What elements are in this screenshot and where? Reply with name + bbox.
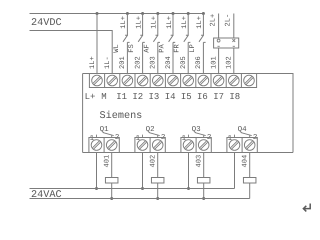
wire input I5 lower (188, 42, 190, 73)
relay Q2 contact (143, 133, 160, 138)
svg-text:205: 205 (180, 56, 188, 69)
node L+ rail junction 3 (141, 12, 144, 15)
node Q2-2 on AC rail (156, 197, 159, 200)
svg-text:PA: PA (159, 44, 167, 53)
terminal screw Q1-2 (106, 140, 117, 151)
svg-text:201: 201 (119, 56, 127, 69)
svg-text:I7: I7 (213, 92, 224, 102)
terminal block Q4 (227, 138, 257, 153)
wire 2L+ upper (218, 14, 220, 39)
switch FR blade (184, 35, 188, 41)
terminal screw 6 (168, 75, 179, 86)
wire Q3-2 to load (203, 153, 205, 178)
return mark (303, 204, 310, 212)
svg-text:I5: I5 (181, 92, 192, 102)
node L+ rail junction 1 (96, 12, 99, 15)
wire Q3-1 down (188, 153, 190, 189)
terminal screw Q2-1 (137, 140, 148, 151)
node Q3-1 on AC rail (187, 187, 190, 190)
wire input I6 upper (201, 14, 203, 36)
load 4 rect (243, 178, 256, 184)
sensor terminal circle (217, 39, 220, 42)
terminal screw 1 (92, 75, 103, 86)
svg-text:101: 101 (210, 56, 218, 69)
sensor terminal mark (232, 39, 235, 42)
wire input I4 lower (173, 42, 175, 73)
svg-text:M: M (101, 92, 106, 102)
labels L+ M I1-I8 (85, 92, 241, 102)
wire 2L+ lower to I7 (218, 48, 220, 74)
svg-text:404: 404 (242, 155, 250, 168)
terminal screw Q3-2 (198, 140, 209, 151)
terminal screw Q3-1 (183, 140, 194, 151)
wire input I3 lower (158, 42, 160, 73)
svg-text:204: 204 (165, 56, 173, 69)
terminal screw 3 (122, 75, 133, 86)
load 2 rect (151, 178, 164, 184)
load 1 rect (105, 178, 118, 184)
wire Q2-1 down (142, 153, 144, 189)
svg-text:24VDC: 24VDC (31, 18, 62, 29)
svg-text:1L-: 1L- (104, 56, 112, 69)
terminal block Q3 (181, 138, 211, 153)
wire input I5 upper (186, 14, 188, 36)
wire 24VDC M rail (30, 31, 113, 74)
wire input I6 lower (203, 42, 205, 73)
svg-text:WL: WL (113, 44, 121, 53)
relay Q3 contact (189, 133, 206, 138)
svg-text:403: 403 (196, 155, 204, 168)
wire load 3 down (203, 183, 205, 199)
load 3 rect (197, 178, 210, 184)
wire Q1-1 down (96, 153, 98, 189)
svg-text:401: 401 (104, 155, 112, 168)
svg-text:I6: I6 (197, 92, 208, 102)
sensor tick right (233, 45, 235, 47)
wire 24VAC rail 2 (30, 198, 250, 200)
svg-text:24VAC: 24VAC (31, 190, 62, 201)
terminal screw Q2-2 (152, 140, 163, 151)
svg-text:I4: I4 (165, 92, 176, 102)
wire Q1-2 to load (111, 153, 113, 178)
relay Q4 contact (235, 133, 252, 138)
terminal screw Q4-1 (229, 140, 240, 151)
svg-text:I1: I1 (116, 92, 127, 102)
svg-text:1L+: 1L+ (166, 16, 174, 29)
wire load 4 down (249, 183, 251, 199)
wire L+ to terminal (96, 14, 98, 74)
svg-text:L+: L+ (85, 92, 96, 102)
switch WL blade (123, 35, 127, 41)
svg-text:206: 206 (195, 56, 203, 69)
node L+ rail junction 7 (202, 12, 205, 15)
node L+ rail junction 2 (126, 12, 129, 15)
wire input I2 upper (140, 14, 142, 36)
terminal block Q1 (89, 138, 119, 153)
svg-text:1L+: 1L+ (196, 16, 204, 29)
wire input I3 upper (156, 14, 158, 36)
terminal screw 9 (213, 75, 224, 86)
wire load 1 down (111, 183, 113, 199)
svg-text:202: 202 (134, 56, 142, 69)
terminal block Q2 (135, 138, 165, 153)
svg-text:1L+: 1L+ (120, 16, 128, 29)
svg-text:FR: FR (174, 44, 182, 53)
terminal screw 11 (244, 75, 255, 86)
wire 2L- upper (233, 14, 235, 39)
sensor box (214, 38, 239, 48)
wire input I2 lower (143, 42, 145, 73)
wire input I1 upper (125, 14, 127, 36)
svg-text:102: 102 (226, 56, 234, 69)
device LOGO box outline (83, 74, 293, 153)
node L+ rail junction 4 (156, 12, 159, 15)
terminal screw Q4-2 (244, 140, 255, 151)
wire 24VAC rail 1 (30, 188, 235, 190)
wire input I4 upper (171, 14, 173, 36)
svg-text:I2: I2 (132, 92, 143, 102)
wire Q4-2 to load (249, 153, 251, 178)
svg-text:2L+: 2L+ (209, 14, 217, 27)
terminal screw 2 (107, 75, 118, 86)
terminal screw 10 (229, 75, 240, 86)
wire Q2-2 to load (157, 153, 159, 178)
node Q1-1 on AC rail (95, 187, 98, 190)
wire Q4-1 down (234, 153, 236, 189)
node Q2-1 on AC rail (141, 187, 144, 190)
terminal screw 8 (198, 75, 209, 86)
switch PA blade (169, 35, 173, 41)
wire 24VDC L+ rail (30, 13, 204, 15)
sensor tick left (218, 45, 220, 47)
svg-text:402: 402 (150, 155, 158, 168)
wire load 2 down (157, 183, 159, 199)
switch AF blade (153, 35, 157, 41)
svg-text:2L-: 2L- (225, 14, 233, 27)
terminal screw 7 (183, 75, 194, 86)
node L+ rail junction 5 (172, 12, 175, 15)
node L+ rail junction 6 (187, 12, 190, 15)
terminal screw 4 (137, 75, 148, 86)
svg-text:I8: I8 (229, 92, 240, 102)
node Q3-2 on AC rail (202, 197, 205, 200)
svg-text:203: 203 (150, 56, 158, 69)
terminal screw Q1-1 (91, 140, 102, 151)
switch LP blade (199, 35, 203, 41)
svg-text:1L+: 1L+ (135, 16, 143, 29)
svg-text:LP: LP (189, 44, 197, 53)
svg-text:I3: I3 (149, 92, 160, 102)
svg-text:1L+: 1L+ (151, 16, 159, 29)
terminal screw 5 (153, 75, 164, 86)
wire 2L- lower to I8 (233, 48, 235, 74)
svg-text:Siemens: Siemens (100, 110, 143, 122)
svg-text:1L+: 1L+ (89, 56, 97, 69)
relay Q1 contact (97, 133, 114, 138)
svg-text:FS: FS (128, 44, 136, 53)
node Q1-2 on AC rail (110, 197, 113, 200)
wire input I1 lower (127, 42, 129, 73)
svg-text:1L+: 1L+ (181, 16, 189, 29)
terminal strip input (89, 74, 256, 88)
svg-text:AF: AF (143, 44, 151, 53)
switch FS blade (138, 35, 142, 41)
